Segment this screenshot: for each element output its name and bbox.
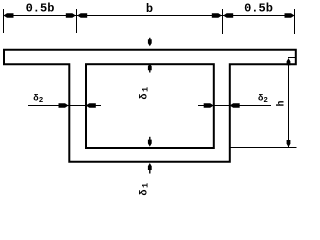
h dimension vertical line	[288, 59, 290, 148]
right delta2 dimension line	[198, 105, 271, 107]
arrow right end pointing right	[285, 13, 295, 17]
main section outline (top flange + webs + bottom wall)	[4, 50, 296, 162]
delta1 fourth arrow (up, below outer bottom)	[148, 163, 152, 170]
h arrow up	[287, 58, 291, 65]
delta1 top arrow (down, above flange)	[149, 38, 151, 41]
arrow pair at mid-left: pointing right	[66, 13, 76, 17]
arrow pair at mid-right: pointing right	[212, 13, 222, 17]
right delta2 arrow pointing left at outer web	[230, 103, 240, 107]
right delta2 arrow pointing right at inner web	[204, 103, 214, 107]
inner hollow rectangle	[86, 64, 214, 148]
svg-text:b: b	[146, 2, 153, 16]
arrow left end pointing left	[4, 13, 14, 17]
arrow pair at mid-left: pointing left	[77, 13, 87, 17]
extension line mid-left	[76, 9, 78, 33]
svg-text:0.5b: 0.5b	[244, 2, 273, 16]
extension line right	[294, 9, 296, 34]
svg-text:h: h	[276, 100, 288, 106]
h arrow down	[287, 140, 291, 147]
left delta2 dimension line	[28, 105, 101, 107]
extension line mid-right	[222, 9, 224, 34]
delta1 third arrow (down, above inner bottom)	[149, 137, 151, 141]
delta1 second arrow (up, below flange)	[148, 63, 152, 70]
left delta2 arrow pointing right at outer web	[59, 103, 69, 107]
arrow pair at mid-right: pointing left	[223, 13, 233, 17]
left delta2 arrow pointing left at inner web	[86, 103, 96, 107]
extension line left	[3, 9, 5, 33]
top dimension line	[4, 15, 295, 17]
h bottom extension line	[230, 147, 297, 149]
svg-text:0.5b: 0.5b	[26, 2, 55, 16]
h top extension line	[288, 57, 297, 59]
